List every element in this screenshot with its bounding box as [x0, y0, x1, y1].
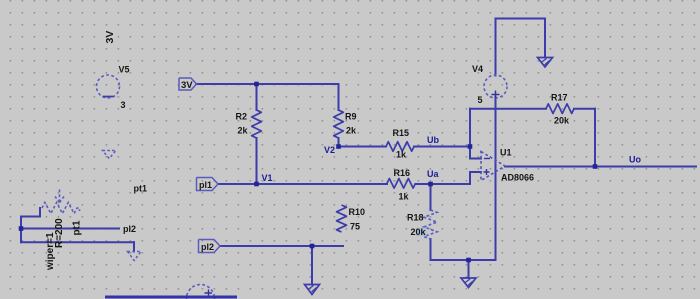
- op-amp plus mark: [484, 169, 490, 175]
- op-amp U1 triangle (dashed): [481, 152, 505, 181]
- svg-text:3: 3: [121, 100, 126, 110]
- junction on 3V rail at R2: [254, 82, 259, 87]
- svg-text:3V: 3V: [104, 31, 116, 44]
- svg-text:pt1: pt1: [134, 184, 148, 194]
- svg-text:U1: U1: [500, 148, 512, 158]
- net flag 3V: [179, 78, 197, 91]
- wire feedback down to output: [594, 109, 596, 167]
- wire 3V rail: [196, 83, 339, 85]
- junction node Ub feedback: [468, 144, 473, 149]
- wire bottom supply rail: [431, 259, 496, 261]
- svg-text:R18: R18: [407, 213, 424, 223]
- wire V4 top horizontal: [496, 18, 546, 20]
- potentiometer pt1 wiper arrow (dashed): [55, 190, 64, 203]
- svg-text:1k: 1k: [396, 150, 407, 160]
- wire jog up into non-inverting input: [470, 172, 481, 184]
- wire bottom edge thick run: [105, 296, 237, 299]
- wire drop to ghost ground: [133, 242, 135, 251]
- wire pl2 net from flag: [220, 245, 343, 247]
- wire op-amp output to Uo: [505, 166, 696, 168]
- wire R17 right lead: [574, 108, 595, 110]
- op-amp minus mark: [484, 158, 490, 160]
- junction pot left column: [19, 226, 24, 231]
- wire V1 rail from flag pl1 to R16: [218, 183, 387, 185]
- wire R9 top lead: [338, 84, 340, 110]
- svg-text:V4: V4: [472, 64, 483, 74]
- resistor R9: [334, 110, 344, 138]
- resistor R15: [386, 142, 414, 152]
- junction output feedback: [593, 164, 598, 169]
- resistor R16: [387, 179, 416, 189]
- ghost source plus mark: [205, 290, 213, 297]
- wire ground stub bottom middle: [468, 260, 470, 278]
- svg-text:R9: R9: [345, 112, 357, 122]
- junction node V1: [254, 182, 259, 187]
- svg-text:R16: R16: [394, 168, 411, 178]
- junction pl2 ground: [310, 244, 315, 249]
- net flag pl2: [199, 240, 221, 253]
- wire node V2 to R15: [339, 146, 387, 148]
- ground (top right): [538, 58, 553, 68]
- ghost voltage source (bottom edge, dashed arc): [187, 285, 215, 299]
- svg-text:1k: 1k: [399, 192, 410, 202]
- V4 plus mark: [492, 91, 500, 99]
- svg-text:75: 75: [350, 222, 360, 232]
- svg-text:20k: 20k: [411, 227, 427, 237]
- wire bottom-left run: [21, 241, 134, 243]
- voltage source V5 (dashed circle): [97, 75, 120, 98]
- wire R2 bottom lead to V1 rail: [256, 138, 258, 184]
- wire R9 bottom lead to node V2: [338, 138, 340, 147]
- ground (bottom middle): [461, 278, 476, 288]
- wire R18 bottom lead: [430, 239, 432, 260]
- svg-text:Ua: Ua: [427, 169, 439, 179]
- svg-text:3V: 3V: [181, 80, 193, 91]
- wire pot left column: [20, 217, 22, 243]
- ghost ground (dashed, below pot run): [128, 252, 142, 261]
- V5 minus mark: [103, 96, 114, 98]
- ground (pl2 net): [305, 285, 320, 295]
- wire down to top-right ground: [544, 19, 546, 58]
- svg-text:V1: V1: [262, 173, 273, 183]
- svg-text:V5: V5: [119, 65, 130, 75]
- potentiometer pt1 body (dashed): [42, 203, 80, 214]
- svg-text:Uo: Uo: [629, 155, 641, 165]
- resistor R17: [546, 104, 574, 114]
- resistor R18 (selected, dashed): [424, 210, 437, 239]
- wire potentiometer left terminal step: [21, 208, 40, 217]
- svg-text:V2: V2: [324, 145, 335, 155]
- svg-text:R10: R10: [349, 207, 366, 217]
- wire V4 top riser: [495, 19, 497, 76]
- svg-text:wiper=1: wiper=1: [45, 232, 56, 271]
- svg-text:AD8066: AD8066: [501, 173, 534, 183]
- svg-text:pl2: pl2: [123, 224, 136, 234]
- svg-text:pl2: pl2: [201, 242, 214, 252]
- junction node V2: [336, 144, 341, 149]
- wire op-amp supply column from V4: [495, 97, 497, 260]
- svg-text:20k: 20k: [554, 116, 570, 126]
- wire R15 to op-amp inverting input (node Ub): [414, 146, 470, 148]
- svg-text:2k: 2k: [346, 126, 357, 136]
- junction node Ua: [428, 182, 433, 187]
- wire feedback riser: [469, 109, 471, 147]
- wire feedback top to R17: [470, 108, 546, 110]
- wire pl2 down to ground: [311, 246, 313, 285]
- svg-text:R2: R2: [236, 112, 248, 122]
- wire R18 top lead: [430, 184, 432, 210]
- wire pl2 stub left: [21, 228, 119, 230]
- resistor R10: [337, 205, 347, 232]
- ghost ground (dashed, upper left): [103, 151, 117, 159]
- svg-text:2k: 2k: [238, 126, 249, 136]
- svg-text:5: 5: [478, 95, 483, 105]
- svg-text:Ub: Ub: [427, 135, 439, 145]
- highlight on R18 value: [416, 228, 427, 237]
- net flag pl1: [197, 178, 219, 191]
- svg-text:R17: R17: [551, 93, 568, 103]
- svg-text:pl1: pl1: [199, 180, 212, 190]
- resistor R2: [252, 110, 262, 138]
- svg-text:pt1: pt1: [72, 220, 83, 235]
- wire R2 top lead: [256, 84, 258, 110]
- svg-text:R15: R15: [393, 128, 410, 138]
- junction bottom supply ground: [466, 258, 471, 263]
- voltage source V4 (dashed circle): [484, 75, 507, 98]
- wire R16 to node Ua and op-amp: [416, 183, 471, 185]
- wire jog down into inverting input: [470, 147, 481, 159]
